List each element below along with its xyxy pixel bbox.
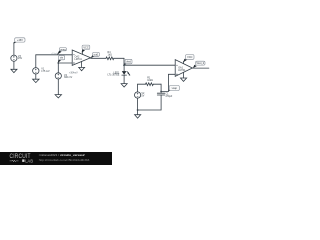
svg-text:15V: 15V [18,57,23,60]
svg-text:+15V: +15V [17,39,23,42]
svg-text:Vout_2: Vout_2 [196,62,204,65]
svg-text:VCC: VCC [83,46,88,49]
svg-text:175 mV: 175 mV [41,70,50,73]
svg-text:300 mV: 300 mV [64,76,73,79]
svg-text:vled: vled [126,61,131,64]
svg-text:LTL-307EE: LTL-307EE [107,74,119,77]
svg-text:vneg: vneg [60,48,66,51]
svg-text:1kΩ: 1kΩ [108,54,113,57]
svg-text:out1: out1 [94,53,99,56]
svg-text:10kΩ: 10kΩ [147,79,153,82]
svg-text:vcap: vcap [172,87,178,90]
svg-text:LM741: LM741 [178,69,186,72]
svg-text:+15mV: +15mV [51,53,59,55]
svg-text:LM741: LM741 [75,58,83,61]
svg-text:470µF: 470µF [165,95,172,98]
svg-text:5V: 5V [141,94,144,97]
svg-text:rmilonas2021 / circuito_versao: rmilonas2021 / circuito_versao2 [39,153,85,157]
svg-text:VCC: VCC [187,56,192,59]
svg-text:+304mV: +304mV [69,72,78,74]
svg-text:http://circuitlab.com/c/5b4322: http://circuitlab.com/c/5b4322u9b3b6 [39,158,90,162]
svg-text:LAB: LAB [25,158,33,163]
